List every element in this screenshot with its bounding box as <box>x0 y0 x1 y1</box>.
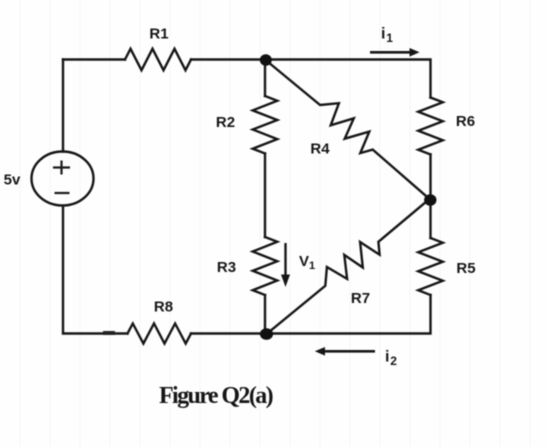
wire top right <box>191 60 431 98</box>
resistor R5 <box>418 238 443 295</box>
resistor R4 <box>265 60 430 200</box>
current arrow i1 <box>370 48 420 57</box>
resistor R1 <box>125 49 191 70</box>
svg-text:R8: R8 <box>154 299 173 316</box>
wire right middle <box>429 155 431 239</box>
svg-text:R7: R7 <box>351 290 370 307</box>
svg-text:V1: V1 <box>299 253 315 272</box>
node A top junction <box>260 54 272 66</box>
svg-text:5v: 5v <box>4 172 21 189</box>
node C bottom junction <box>260 328 273 340</box>
wire middle top <box>264 60 266 97</box>
svg-text:R3: R3 <box>217 259 236 276</box>
plus sign of source <box>53 161 70 194</box>
svg-text:Figure Q2(a): Figure Q2(a) <box>159 383 273 409</box>
svg-text:R6: R6 <box>456 113 475 130</box>
minus sign of source <box>55 192 70 194</box>
wire right bottom <box>191 295 431 334</box>
wire middle center <box>264 154 266 238</box>
svg-text:R2: R2 <box>216 114 235 131</box>
voltage arrow V1 <box>281 243 290 287</box>
resistor R3 <box>253 237 278 295</box>
wire top left <box>63 58 125 60</box>
resistor R7 <box>267 199 430 334</box>
resistor R2 <box>253 96 278 154</box>
voltage source V 5v <box>32 152 94 206</box>
resistor R8 <box>128 324 192 344</box>
wire middle bottom <box>264 295 266 334</box>
svg-text:i1: i1 <box>381 26 393 46</box>
artifact dash on bottom wire <box>103 331 115 335</box>
resistor R6 <box>418 98 443 155</box>
node B right junction <box>424 194 436 206</box>
svg-text:R4: R4 <box>310 141 330 158</box>
wire bottom left <box>63 207 128 334</box>
svg-text:R1: R1 <box>149 26 168 43</box>
wire left top <box>62 60 64 152</box>
svg-text:i2: i2 <box>385 349 397 369</box>
current arrow i2 <box>315 347 375 356</box>
svg-text:R5: R5 <box>456 260 475 277</box>
